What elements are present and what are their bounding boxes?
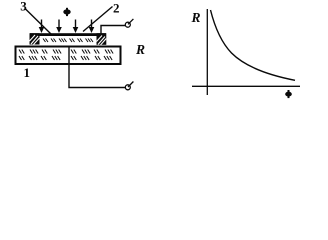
electrode left (30, 33, 40, 44)
photosensitive layer hatch (43, 39, 93, 43)
top terminal (125, 19, 133, 27)
substrate 1 body (16, 47, 121, 65)
top lead wire (101, 26, 125, 34)
graph vertical axis (206, 9, 208, 95)
light arrow a2 (56, 20, 62, 34)
svg-text:R: R (191, 10, 201, 25)
electrode right (97, 33, 107, 45)
light arrow a3 (73, 20, 79, 34)
graph label PHI (285, 90, 292, 98)
bottom lead wire (69, 46, 125, 88)
graph horizontal axis (192, 85, 300, 87)
luminous flux label PHI (63, 8, 70, 16)
svg-text:R: R (135, 42, 145, 57)
characteristic curve (211, 10, 296, 80)
svg-text:3: 3 (20, 0, 27, 14)
substrate hatch row 1 (19, 50, 113, 54)
leader line from 3 (26, 9, 52, 34)
photosensitive layer top film (30, 33, 106, 36)
light arrow a4 (89, 20, 95, 34)
bottom terminal (125, 82, 133, 90)
light arrow a1 (39, 20, 45, 34)
svg-text:2: 2 (113, 1, 120, 16)
leader line from 2 (83, 7, 113, 32)
svg-text:1: 1 (24, 65, 31, 80)
substrate hatch row 2 (19, 56, 112, 60)
